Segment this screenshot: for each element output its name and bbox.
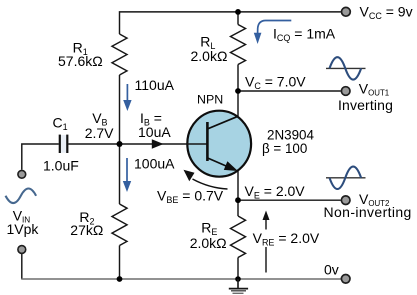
wire emitter to node E: [237, 170, 239, 200]
svg-text:1.0uF: 1.0uF: [43, 158, 79, 174]
transistor emitter arrowhead: [224, 161, 238, 171]
transistor Q1 circle: [187, 111, 251, 177]
svg-text:VE = 2.0V: VE = 2.0V: [245, 183, 306, 201]
arrow VBE (black curved toward base): [184, 170, 228, 189]
terminal Vcc: [342, 7, 351, 16]
node E junction dot: [235, 197, 241, 203]
resistor R1: [112, 34, 127, 75]
svg-text:2.0kΩ: 2.0kΩ: [190, 235, 227, 251]
node R2-rail junction dot: [117, 276, 123, 282]
terminal 0v: [341, 275, 350, 284]
svg-text:1Vpk: 1Vpk: [7, 221, 40, 237]
node top junction dot: [235, 9, 241, 15]
wire RE bottom to rail: [237, 258, 239, 280]
svg-text:2.7V: 2.7V: [85, 125, 114, 141]
transistor base bar: [206, 122, 209, 161]
wire R2 bottom to rail: [119, 246, 121, 280]
svg-text:0v: 0v: [324, 262, 339, 278]
wire RL bottom to node C: [237, 65, 239, 92]
wire node E to Vout2 terminal: [238, 199, 341, 201]
arrow 110uA (blue down): [123, 84, 131, 111]
svg-text:110uA: 110uA: [135, 77, 175, 93]
svg-text:VC = 7.0V: VC = 7.0V: [245, 73, 306, 91]
sine icon Vout2 (with axis, negative first): [326, 167, 366, 189]
svg-text:10uA: 10uA: [138, 124, 171, 140]
node C junction dot: [235, 88, 241, 94]
resistor RL: [231, 25, 246, 65]
arrow 100uA (blue down): [123, 158, 131, 192]
resistor R2: [112, 204, 127, 246]
sine icon Vin: [6, 189, 37, 204]
svg-text:Inverting: Inverting: [338, 97, 393, 113]
wire top rail Vcc: [120, 12, 341, 34]
svg-text:2.0kΩ: 2.0kΩ: [191, 48, 228, 64]
wire C1 to base bar: [68, 143, 207, 145]
wire Vin- down to rail: [21, 254, 23, 279]
transistor collector line: [207, 116, 238, 129]
resistor RE: [231, 216, 246, 258]
capacitor C1: [61, 135, 66, 153]
wire top junction to RL: [237, 12, 239, 25]
svg-text:VCC = 9v: VCC = 9v: [360, 4, 413, 22]
sine icon Vout1 (with axis, positive first): [326, 57, 366, 79]
ground symbol: [229, 279, 248, 293]
terminal Vin-: [18, 246, 26, 254]
wire node E to RE: [237, 200, 239, 216]
terminal Vout1: [341, 87, 350, 96]
arrow ICQ (blue hook down): [254, 21, 291, 45]
svg-text:β = 100: β = 100: [262, 141, 307, 156]
svg-text:57.6kΩ: 57.6kΩ: [58, 53, 103, 69]
svg-text:100uA: 100uA: [134, 156, 175, 172]
wire collector down to transistor: [237, 91, 239, 116]
node ground-rail junction dot: [235, 276, 241, 282]
svg-text:Non-inverting: Non-inverting: [324, 204, 412, 220]
wire node C to Vout1 terminal: [238, 90, 341, 92]
svg-text:NPN: NPN: [197, 92, 223, 106]
wire Vin+ up to base line: [22, 144, 59, 170]
wire base inside transistor: [187, 143, 207, 145]
label VRE = 2.0V (white backed): [251, 230, 320, 248]
arrow VRE (black up): [263, 211, 270, 273]
arrow IB (black right, on base wire): [152, 139, 164, 149]
wire bottom rail 0v (gray): [21, 278, 341, 280]
node B junction dot: [117, 141, 123, 147]
terminal Vout2: [341, 196, 350, 205]
wire R1 to R2 vertical through node B: [119, 75, 121, 204]
terminal Vin+: [18, 170, 26, 178]
svg-text:27kΩ: 27kΩ: [70, 222, 103, 238]
transistor emitter line: [207, 158, 233, 169]
